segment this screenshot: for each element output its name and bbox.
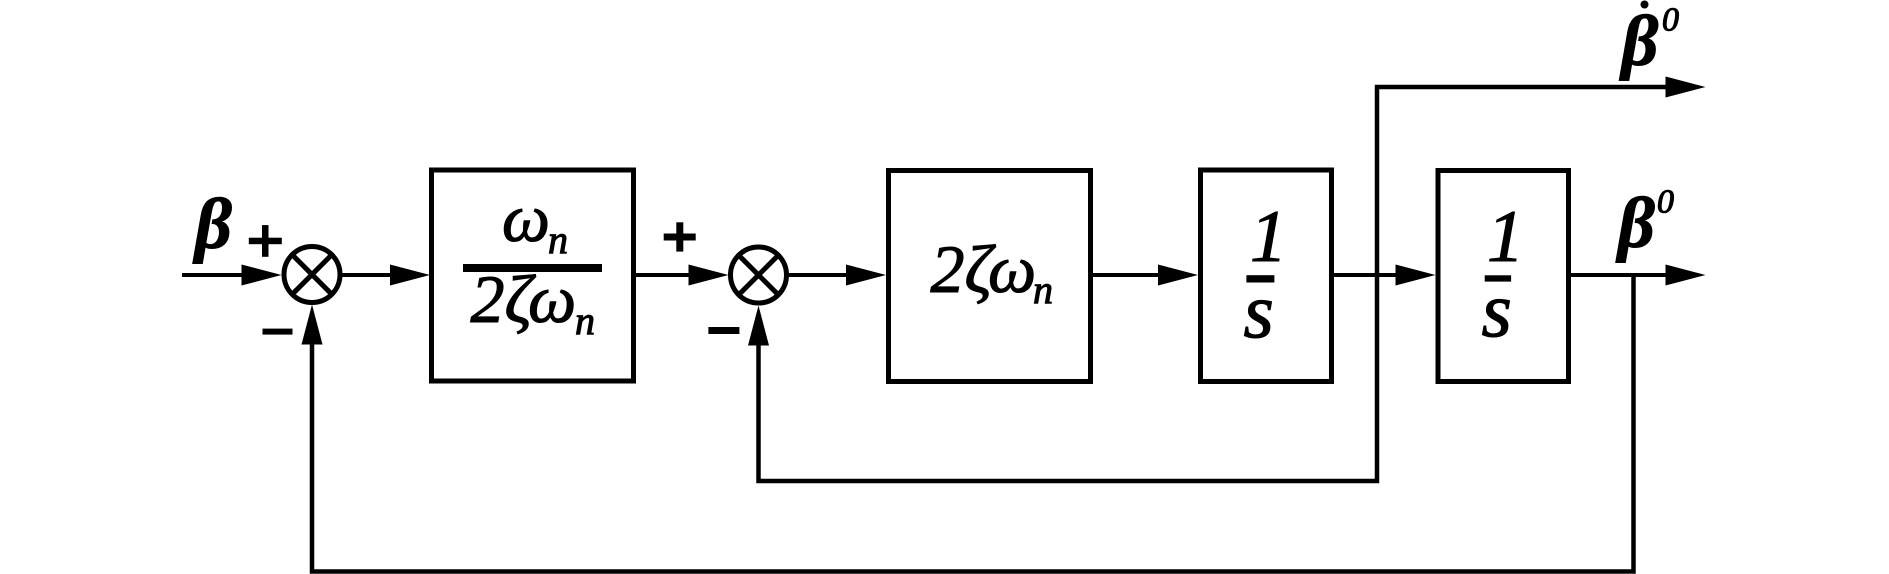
summing junction S1 bbox=[284, 247, 340, 303]
svg-text:0: 0 bbox=[1657, 183, 1674, 220]
label G2 2 zeta omega_n bbox=[931, 231, 1054, 312]
wire S2 to block G2 bbox=[789, 265, 887, 286]
wire G2 to block I1 bbox=[1093, 265, 1198, 286]
svg-text:s: s bbox=[1482, 266, 1512, 353]
block G1 omega_n/(2 zeta omega_n) bbox=[432, 170, 634, 381]
wire outer feedback loop from output to S1 bbox=[302, 275, 1634, 572]
minus sign at summing junction S1 bbox=[263, 329, 293, 335]
block I1 integrator 1/s bbox=[1201, 170, 1332, 382]
node beta-dot-0 output label bbox=[1619, 1, 1680, 82]
label G1 fraction bar bbox=[463, 264, 602, 272]
block I2 integrator 1/s bbox=[1438, 171, 1569, 382]
svg-text:ω: ω bbox=[502, 180, 550, 256]
wire G1 to S2 bbox=[636, 265, 729, 286]
svg-text:2ζω: 2ζω bbox=[471, 261, 577, 337]
plus sign at summing junction S1 bbox=[249, 225, 282, 257]
svg-text:n: n bbox=[1033, 267, 1053, 312]
summing junction S2 bbox=[731, 247, 787, 303]
svg-text:n: n bbox=[575, 298, 595, 343]
wire I2 to beta-0 output bbox=[1571, 265, 1706, 286]
svg-text:n: n bbox=[548, 217, 568, 262]
svg-text:2ζω: 2ζω bbox=[931, 231, 1037, 307]
svg-text:s: s bbox=[1244, 267, 1274, 354]
label G1 denominator 2 zeta omega_n bbox=[471, 261, 596, 343]
svg-text:β: β bbox=[1619, 1, 1659, 81]
plus sign at summing junction S2 bbox=[664, 222, 696, 251]
wire S1 to block G1 bbox=[342, 265, 430, 286]
wire input bbox=[182, 265, 282, 286]
wire inner feedback loop from branch to S2 bbox=[748, 275, 1377, 481]
wire I1 to block I2 with branch node bbox=[1334, 265, 1436, 286]
label G1 numerator omega_n bbox=[502, 180, 568, 262]
label I2 1/s bbox=[1482, 196, 1525, 353]
block G2 2 zeta omega_n bbox=[889, 171, 1091, 382]
svg-text:0: 0 bbox=[1662, 2, 1679, 39]
node beta-0 output label bbox=[1615, 183, 1674, 263]
wire branch up to beta-dot output bbox=[1377, 77, 1706, 278]
minus sign at summing junction S2 bbox=[708, 327, 739, 334]
node beta input label bbox=[192, 184, 232, 264]
svg-text:β: β bbox=[192, 184, 232, 264]
label I1 1/s bbox=[1244, 196, 1288, 354]
svg-text:β: β bbox=[1615, 183, 1655, 263]
svg-text:1: 1 bbox=[1250, 196, 1287, 278]
